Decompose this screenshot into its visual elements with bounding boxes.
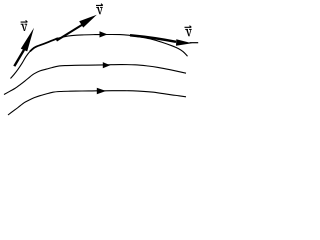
arrowhead on streamline S2 <box>103 62 110 68</box>
velocity vector A shaft <box>14 50 24 66</box>
label v2 glyph <box>96 7 102 14</box>
arrowhead on streamline S3 <box>97 88 106 94</box>
velocity vector C shaft <box>130 35 176 42</box>
label v3 glyph <box>185 29 191 36</box>
streamline S1 (top field line) <box>11 34 188 78</box>
velocity vector B shaft <box>57 24 85 41</box>
velocity vector A head <box>21 28 34 52</box>
velocity vector B tail segment along streamline <box>30 38 58 51</box>
label v1 overbar arrow <box>21 20 28 22</box>
label v1 glyph <box>21 24 27 31</box>
label v2 overbar arrow <box>96 4 103 6</box>
label v3 overbar arrow <box>185 26 192 28</box>
velocity vector C head <box>176 39 192 46</box>
velocity vector B head <box>79 15 97 28</box>
streamline S2 (middle field line) <box>4 65 186 95</box>
streamline S3 (bottom field line) <box>8 91 186 115</box>
velocity vector C tip whisker <box>190 42 199 44</box>
arrowhead on streamline S1 <box>100 31 108 37</box>
